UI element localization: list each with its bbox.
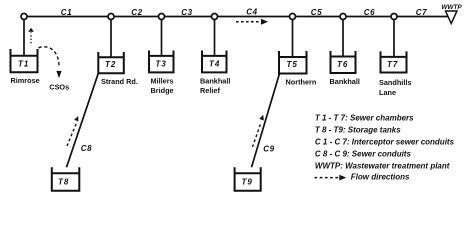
conduit C5 wire — [293, 8, 344, 17]
WWTP treatment plant symbol — [441, 4, 462, 24]
svg-text:C5: C5 — [311, 8, 322, 17]
flow arrow up along C9 — [253, 115, 264, 147]
tank T8 — [52, 167, 80, 191]
conduit C2 wire — [111, 8, 162, 17]
svg-text:C8: C8 — [81, 144, 92, 153]
svg-text:T5: T5 — [287, 60, 298, 69]
node chamber 5 — [290, 14, 296, 20]
riser pipe T3 — [161, 19, 163, 56]
CSO overflow curved arrow — [39, 47, 62, 79]
flow arrow up along C8 — [67, 116, 78, 146]
svg-text:T7: T7 — [387, 60, 398, 69]
tank T2 — [98, 52, 124, 73]
riser pipe T1 — [23, 19, 25, 56]
svg-text:Bridge: Bridge — [151, 86, 174, 95]
svg-text:T2: T2 — [105, 60, 116, 69]
svg-text:T 8 - T9: Storage tanks: T 8 - T9: Storage tanks — [315, 126, 401, 135]
svg-text:WWTP: Wastewater treatment pl: WWTP: Wastewater treatment plant — [315, 161, 450, 170]
svg-text:Lane: Lane — [379, 88, 396, 97]
node chamber 6 — [340, 14, 346, 20]
svg-text:C1: C1 — [61, 8, 72, 17]
flow arrow right under C4 — [236, 19, 268, 25]
svg-text:WWTP: WWTP — [441, 4, 462, 11]
node chamber 7 — [391, 14, 397, 20]
svg-text:Rimrose: Rimrose — [11, 76, 40, 85]
legend flow arrow — [315, 172, 411, 181]
svg-text:Strand Rd.: Strand Rd. — [101, 77, 138, 86]
tank T6 — [331, 51, 356, 73]
svg-text:C7: C7 — [416, 8, 427, 17]
svg-text:T1: T1 — [18, 60, 29, 69]
node chamber 1 — [21, 14, 27, 20]
conduit C7 wire — [394, 8, 448, 17]
svg-text:Relief: Relief — [200, 86, 220, 95]
tank T1 — [11, 49, 38, 72]
svg-text:Flow directions: Flow directions — [351, 172, 410, 181]
svg-text:Northern: Northern — [286, 77, 317, 86]
svg-text:Sandhills: Sandhills — [379, 78, 411, 87]
tank T3 — [149, 51, 174, 73]
conduit C6 wire — [343, 8, 394, 17]
riser pipe T5 — [292, 19, 294, 57]
flow arrow up at T1 — [28, 28, 34, 43]
tank T4 — [202, 51, 227, 73]
tank T7 — [381, 51, 407, 72]
conduit C1 wire — [24, 8, 111, 17]
svg-text:C 8 - C 9: Sewer conduits: C 8 - C 9: Sewer conduits — [315, 149, 412, 158]
riser pipe T7 — [393, 19, 395, 57]
svg-text:C2: C2 — [131, 8, 142, 17]
riser pipe T6 — [342, 19, 344, 57]
svg-text:C9: C9 — [263, 145, 274, 154]
node chamber 3 — [159, 14, 165, 20]
conduit C8 wire — [67, 73, 99, 167]
conduit C4 wire — [215, 8, 293, 17]
svg-text:Millers: Millers — [151, 76, 174, 85]
svg-text:C3: C3 — [181, 8, 192, 17]
node chamber 4 — [212, 14, 218, 20]
node chamber 2 — [108, 14, 114, 20]
conduit C3 wire — [162, 8, 215, 17]
svg-text:T3: T3 — [156, 60, 167, 69]
riser pipe T2 — [110, 19, 112, 57]
tank T9 — [235, 167, 261, 191]
conduit C9 wire — [252, 74, 280, 168]
svg-text:CSOs: CSOs — [49, 83, 69, 92]
svg-text:T9: T9 — [242, 178, 253, 187]
svg-text:T4: T4 — [209, 60, 220, 69]
tank T5 — [279, 51, 307, 74]
riser pipe T4 — [214, 19, 216, 56]
svg-text:Bankhall: Bankhall — [330, 77, 360, 86]
svg-text:C4: C4 — [246, 8, 257, 17]
svg-text:T 1 - T 7: Sewer chambers: T 1 - T 7: Sewer chambers — [315, 114, 414, 123]
svg-text:Bankhall: Bankhall — [200, 76, 230, 85]
svg-text:T8: T8 — [58, 178, 69, 187]
svg-text:C 1 - C 7: Interceptor sewer: C 1 - C 7: Interceptor sewer conduits — [315, 138, 455, 147]
svg-text:C6: C6 — [364, 8, 375, 17]
svg-text:T6: T6 — [337, 60, 348, 69]
